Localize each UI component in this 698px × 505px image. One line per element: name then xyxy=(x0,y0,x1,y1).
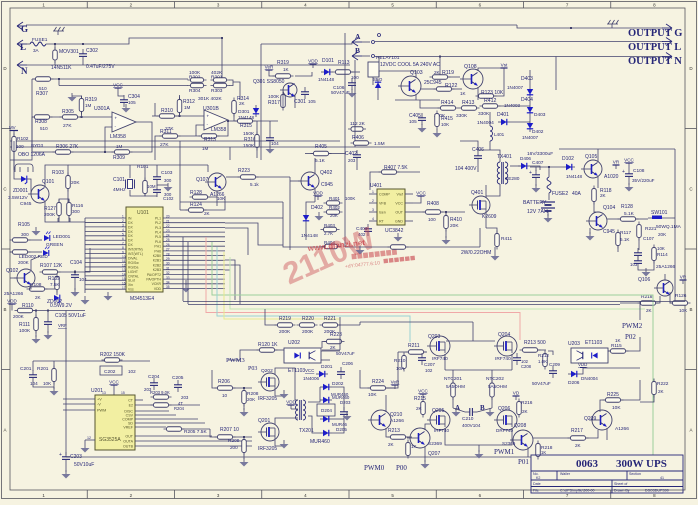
svg-text:PA/OPT2: PA/OPT2 xyxy=(147,273,161,277)
svg-text:10K: 10K xyxy=(396,366,405,371)
capacitor C104 xyxy=(71,270,79,282)
wire U401 left pin xyxy=(369,211,377,213)
svg-text:DX: DX xyxy=(128,243,133,247)
svg-text:10K: 10K xyxy=(43,381,52,386)
resistor R201 xyxy=(52,366,57,385)
transistor Q402 xyxy=(298,172,319,190)
svg-text:2W/0.22OHM: 2W/0.22OHM xyxy=(461,250,491,256)
svg-text:BATTERY: BATTERY xyxy=(523,200,547,206)
svg-text:VCC: VCC xyxy=(624,158,634,163)
wire xyxy=(33,382,54,387)
power VD Q206 xyxy=(513,391,520,401)
svg-text:K2B2: K2B2 xyxy=(153,263,161,267)
wire xyxy=(322,349,340,351)
svg-text:K2609: K2609 xyxy=(482,214,497,220)
svg-text:DN4004: DN4004 xyxy=(581,376,598,381)
wire xyxy=(306,202,315,212)
svg-text:2: 2 xyxy=(372,199,374,203)
wire U101 right pin xyxy=(163,226,225,228)
wire source bus xyxy=(445,440,512,445)
fuse FUSE2 xyxy=(547,177,551,193)
svg-text:23: 23 xyxy=(166,229,170,233)
capacitor C301 xyxy=(301,87,309,99)
wire riser x261 xyxy=(260,44,262,80)
svg-text:105: 105 xyxy=(308,99,316,104)
svg-text:103: 103 xyxy=(630,262,638,267)
wire xyxy=(350,71,360,73)
wire xyxy=(156,165,158,172)
svg-text:DSO3DUPS90: DSO3DUPS90 xyxy=(645,489,669,493)
capacitor C402 xyxy=(353,150,361,162)
wire xyxy=(477,163,479,172)
wire U401 left pin xyxy=(369,193,377,195)
svg-text:R221: R221 xyxy=(324,316,336,322)
mosfet Q203 IRF740 xyxy=(427,336,450,356)
wire U201 right pin xyxy=(135,435,212,437)
svg-text:5: 5 xyxy=(122,233,124,237)
svg-text:20K: 20K xyxy=(330,213,338,218)
wire xyxy=(53,387,55,389)
svg-text:D204: D204 xyxy=(321,408,332,413)
wire xyxy=(275,390,282,396)
wire xyxy=(386,428,390,437)
wire U101 left pin xyxy=(85,230,126,232)
resistor R319 xyxy=(79,96,84,115)
mosfet Q401 K2609 xyxy=(469,196,490,214)
resistor R126 xyxy=(670,301,691,306)
wire xyxy=(479,228,481,247)
varistor MOV301 xyxy=(53,47,58,63)
wire xyxy=(486,228,497,233)
power VDD xyxy=(308,59,318,69)
svg-text:ET1103: ET1103 xyxy=(288,368,305,374)
wire xyxy=(445,212,447,215)
wire xyxy=(415,94,417,100)
svg-text:104: 104 xyxy=(79,277,87,282)
transistor Q106 xyxy=(654,280,673,296)
svg-text:PL5: PL5 xyxy=(155,235,161,239)
resistor R302 xyxy=(188,78,207,83)
svg-text:105: 105 xyxy=(128,100,136,105)
svg-text:RG/Sw: RG/Sw xyxy=(128,261,139,265)
resistor R311 xyxy=(160,134,181,139)
resistor R128a xyxy=(190,195,211,200)
wire U101 left pin xyxy=(85,270,126,272)
resistor R113 xyxy=(333,70,354,75)
svg-text:C108: C108 xyxy=(633,168,645,174)
capacitor C205 xyxy=(174,380,182,392)
svg-text:2K: 2K xyxy=(522,409,529,414)
wire xyxy=(646,261,654,270)
svg-text:20K: 20K xyxy=(71,180,80,186)
svg-text:2K: 2K xyxy=(204,211,211,216)
wire xyxy=(81,112,83,117)
svg-text:+V: +V xyxy=(97,398,102,402)
wire xyxy=(113,389,115,395)
svg-text:VCC: VCC xyxy=(418,389,428,394)
svg-text:Q102: Q102 xyxy=(6,268,18,274)
svg-text:IRF3205: IRF3205 xyxy=(258,446,277,452)
resistor R309 xyxy=(112,150,133,155)
svg-text:5A5OHM: 5A5OHM xyxy=(488,384,507,389)
wire xyxy=(672,217,675,219)
svg-text:R115: R115 xyxy=(611,343,622,348)
svg-text:17: 17 xyxy=(122,286,126,290)
ground xyxy=(44,331,53,340)
diode D205 MUR460 xyxy=(320,430,332,436)
svg-text:R102: R102 xyxy=(17,136,29,142)
svg-text:13: 13 xyxy=(122,268,126,272)
wire xyxy=(597,176,599,188)
wire xyxy=(548,167,550,177)
wire U101 right pin xyxy=(163,236,225,238)
wire xyxy=(452,88,462,90)
wire xyxy=(75,248,90,272)
svg-text:C201: C201 xyxy=(20,366,32,372)
svg-text:C205: C205 xyxy=(172,375,184,381)
svg-text:R311: R311 xyxy=(160,129,172,135)
svg-text:R223: R223 xyxy=(238,168,250,174)
svg-text:203: 203 xyxy=(181,395,189,400)
svg-text:13: 13 xyxy=(102,391,106,395)
svg-text:7.5K: 7.5K xyxy=(50,282,60,287)
wire xyxy=(626,337,640,351)
svg-text:C209: C209 xyxy=(549,362,560,367)
wire xyxy=(45,288,57,290)
wire xyxy=(597,149,599,162)
svg-text:VCC: VCC xyxy=(395,202,403,206)
wire xyxy=(187,242,189,304)
capacitor C302 xyxy=(79,49,87,61)
wire xyxy=(628,181,630,185)
wire left vertical drop xyxy=(65,311,67,456)
wire xyxy=(356,162,358,170)
wire xyxy=(441,211,465,213)
wire xyxy=(226,176,240,178)
svg-text:D205: D205 xyxy=(336,427,347,432)
ground xyxy=(442,236,451,245)
wire xyxy=(13,131,15,136)
wire xyxy=(152,115,159,117)
svg-text:R313: R313 xyxy=(204,137,216,143)
transistor Q207 xyxy=(407,428,430,448)
capacitor C303 xyxy=(266,133,274,145)
wire xyxy=(638,238,640,250)
svg-text:DX: DX xyxy=(128,225,133,229)
svg-text:DX: DX xyxy=(128,239,133,243)
ground xyxy=(315,212,324,221)
svg-text:SLot: SLot xyxy=(128,279,135,283)
capacitor C204 xyxy=(150,378,158,390)
wire U101 right pin xyxy=(163,273,225,275)
svg-text:VeR: VeR xyxy=(265,65,274,70)
svg-text:5.1K: 5.1K xyxy=(624,211,635,217)
wire U101 right pin xyxy=(163,255,225,257)
svg-text:4: 4 xyxy=(122,228,124,232)
ground xyxy=(240,458,249,467)
wire N line xyxy=(26,64,350,66)
svg-text:1K: 1K xyxy=(615,338,622,343)
svg-text:27: 27 xyxy=(166,248,170,252)
svg-text:Q401: Q401 xyxy=(471,190,483,196)
svg-text:SG3525A: SG3525A xyxy=(99,437,121,443)
wire xyxy=(535,167,537,171)
svg-text:CNTAL: CNTAL xyxy=(128,274,139,278)
node A arrow xyxy=(352,38,362,46)
power VeR xyxy=(265,65,274,75)
resistor R222 xyxy=(652,379,657,398)
wire U201 right pin xyxy=(135,445,252,447)
watermark chinese line xyxy=(351,249,397,259)
resistor R213c xyxy=(388,435,409,440)
wire xyxy=(129,165,131,178)
svg-text:R307: R307 xyxy=(36,91,48,97)
svg-text:5.1K: 5.1K xyxy=(315,158,326,164)
wire xyxy=(204,196,225,210)
svg-text:200: 200 xyxy=(230,445,238,450)
svg-text:Q203: Q203 xyxy=(428,334,440,340)
wire xyxy=(28,251,42,253)
capacitor C105 xyxy=(44,317,52,329)
svg-text:A1266: A1266 xyxy=(390,418,404,424)
svg-text:1N4004: 1N4004 xyxy=(477,120,494,126)
wire U101 left pin xyxy=(85,248,126,250)
svg-text:R213: R213 xyxy=(388,428,400,434)
wire U101 right pin xyxy=(163,264,225,266)
wire xyxy=(10,277,17,279)
wire U101 left pin xyxy=(85,262,126,264)
svg-text:B: B xyxy=(355,46,360,55)
capacitor C405 xyxy=(418,113,426,125)
ground xyxy=(491,252,500,261)
svg-text:50V47uF: 50V47uF xyxy=(331,90,350,95)
capacitor C304 xyxy=(120,95,128,107)
wire xyxy=(580,368,583,374)
wire U101 left pin xyxy=(85,257,126,259)
resistor R202 xyxy=(102,358,123,363)
svg-text:R204: R204 xyxy=(174,406,185,411)
svg-text:VCC: VCC xyxy=(109,380,119,385)
resistor R205 xyxy=(164,427,185,432)
relay contact xyxy=(372,55,375,58)
svg-text:1K: 1K xyxy=(411,444,418,449)
resistor R122 xyxy=(434,87,455,92)
wire xyxy=(74,282,76,290)
wire xyxy=(511,428,513,440)
capacitor C210 xyxy=(465,408,477,416)
transformer TX401 xyxy=(497,162,507,184)
ground xyxy=(32,335,41,344)
output arrow G xyxy=(662,24,672,32)
svg-text:LM358: LM358 xyxy=(211,127,227,133)
svg-text:A1020: A1020 xyxy=(604,174,619,180)
resistor R401 xyxy=(324,201,343,206)
svg-text:OUT: OUT xyxy=(125,435,133,439)
svg-text:1N4006: 1N4006 xyxy=(303,376,320,381)
svg-text:C204: C204 xyxy=(148,374,160,380)
wire xyxy=(233,436,252,438)
svg-text:D102: D102 xyxy=(562,156,574,162)
capacitor C208 xyxy=(513,353,521,365)
wire xyxy=(424,446,426,462)
svg-text:PL2: PL2 xyxy=(155,221,161,225)
svg-text:100: 100 xyxy=(428,217,436,222)
wire xyxy=(295,399,298,401)
svg-text:R410: R410 xyxy=(450,217,462,223)
svg-text:R201: R201 xyxy=(37,366,49,372)
wire U101 right pin xyxy=(163,222,225,224)
svg-text:PWM1: PWM1 xyxy=(494,448,515,456)
svg-text:R216: R216 xyxy=(521,400,533,406)
power VCC Q205 xyxy=(418,389,428,399)
wire xyxy=(208,191,217,197)
wire xyxy=(175,115,204,117)
svg-text:RG/Da: RG/Da xyxy=(128,265,138,269)
wire vertical rail x345 xyxy=(344,33,346,247)
ground xyxy=(71,288,80,297)
wire xyxy=(256,176,290,178)
wire net PL3 xyxy=(225,228,248,255)
svg-text:4: 4 xyxy=(372,217,374,221)
capacitor C406 xyxy=(474,151,482,163)
svg-text:200K: 200K xyxy=(44,212,56,218)
wire U401 right pin xyxy=(405,211,413,213)
resistor R404 xyxy=(322,244,341,249)
wire xyxy=(370,172,381,190)
capacitor C211 xyxy=(340,407,348,419)
ground xyxy=(348,89,357,98)
wire xyxy=(511,354,513,370)
wire U101 left pin xyxy=(85,275,126,277)
svg-text:A: A xyxy=(355,32,361,41)
svg-text:VR: VR xyxy=(613,160,620,165)
relay contact xyxy=(372,41,375,44)
wire xyxy=(130,190,157,196)
svg-text:R123 10K: R123 10K xyxy=(481,90,504,96)
svg-text:R114: R114 xyxy=(657,252,668,257)
svg-text:DRF740: DRF740 xyxy=(496,428,514,433)
svg-text:C102: C102 xyxy=(163,196,174,201)
svg-text:PL3: PL3 xyxy=(155,226,161,230)
wire U101 left pin xyxy=(85,284,126,286)
svg-text:1N4148: 1N4148 xyxy=(566,174,583,179)
wire xyxy=(290,180,301,182)
resistor R212 xyxy=(543,351,548,370)
resistor R209 xyxy=(242,437,247,456)
wire xyxy=(406,246,480,248)
transistor package outline xyxy=(15,164,33,172)
svg-text:VDD: VDD xyxy=(7,299,17,304)
resistor R410 xyxy=(444,213,449,232)
wire xyxy=(178,135,204,137)
mosfet Q201 IRF3205 xyxy=(258,423,279,441)
svg-text:1M: 1M xyxy=(116,144,123,149)
svg-text:C945: C945 xyxy=(20,201,32,207)
wire xyxy=(360,321,473,323)
wire xyxy=(69,218,71,222)
wire top rail xyxy=(559,148,675,150)
resistor R301 xyxy=(211,78,230,83)
svg-text:Section: Section xyxy=(629,472,641,476)
svg-text:Vref: Vref xyxy=(397,193,403,197)
diode D301 xyxy=(253,105,259,117)
power VR Q106 xyxy=(680,275,687,285)
svg-text:30: 30 xyxy=(166,262,170,266)
wire xyxy=(155,136,162,160)
wire xyxy=(31,117,33,152)
resistor R109 xyxy=(55,274,60,293)
svg-text:R217: R217 xyxy=(571,428,583,434)
wire U101 left pin xyxy=(85,266,126,268)
svg-text:100K: 100K xyxy=(19,328,31,334)
optocoupler U203 ET1103 xyxy=(571,348,608,363)
wire xyxy=(628,167,630,169)
svg-text:1.0K: 1.0K xyxy=(538,359,547,364)
svg-text:21: 21 xyxy=(166,219,170,223)
svg-text:OUT: OUT xyxy=(395,211,403,215)
wire xyxy=(656,296,660,303)
relay RELAY101 coil xyxy=(368,62,379,77)
wire xyxy=(54,44,56,49)
svg-text:301K 402K: 301K 402K xyxy=(198,96,223,102)
svg-text:R219: R219 xyxy=(279,316,291,322)
wire xyxy=(527,447,529,457)
wire xyxy=(71,151,114,153)
ground xyxy=(394,233,403,242)
svg-text:D403: D403 xyxy=(534,112,546,118)
svg-text:R108: R108 xyxy=(30,282,42,288)
svg-text:300: 300 xyxy=(72,209,80,214)
ground xyxy=(68,93,77,102)
svg-text:RT: RT xyxy=(379,220,385,224)
wire net K2B3 xyxy=(225,265,240,304)
wire vertical rail x355 xyxy=(354,60,356,147)
wire xyxy=(45,165,68,175)
IC U101 M34513E4 xyxy=(126,207,163,292)
wire U101 left pin xyxy=(85,226,126,228)
resistor R116 xyxy=(67,200,72,219)
wire xyxy=(47,311,49,318)
wire xyxy=(196,125,204,136)
wire xyxy=(67,189,69,203)
resistor R213b xyxy=(520,348,541,353)
wire xyxy=(321,359,330,361)
svg-text:1M: 1M xyxy=(85,103,92,108)
svg-text:MUR460: MUR460 xyxy=(310,439,330,445)
svg-text:Q106: Q106 xyxy=(638,277,650,283)
resistor R204a xyxy=(151,403,172,408)
svg-text:300: 300 xyxy=(164,178,172,183)
watermark small line xyxy=(345,256,416,270)
svg-text:VeR: VeR xyxy=(391,380,400,385)
svg-text:14N511K: 14N511K xyxy=(51,65,72,71)
wire xyxy=(413,200,421,203)
wire U401 left pin xyxy=(369,220,377,222)
wire xyxy=(53,361,55,368)
wire U101 right pin xyxy=(163,231,225,233)
wire net PL1 xyxy=(225,217,283,219)
svg-text:R101: R101 xyxy=(137,164,149,170)
svg-text:VDD: VDD xyxy=(308,59,318,64)
wire xyxy=(444,428,446,440)
svg-text:2K: 2K xyxy=(388,442,395,447)
wire xyxy=(594,202,596,212)
wire xyxy=(32,151,56,153)
svg-text:1N4003: 1N4003 xyxy=(504,103,521,108)
resistor R220 xyxy=(297,323,318,328)
svg-text:Q105: Q105 xyxy=(585,154,597,160)
svg-text:34: 34 xyxy=(166,281,170,285)
